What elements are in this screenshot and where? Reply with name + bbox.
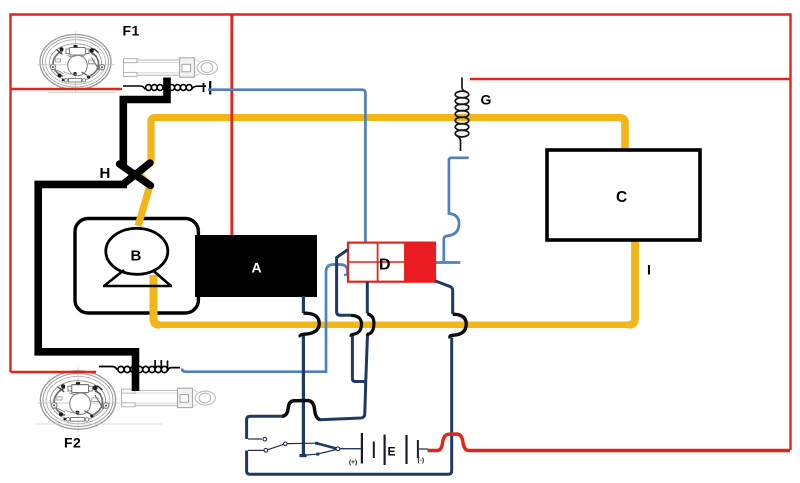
thick brake hose from F1 coil down [123, 78, 167, 167]
flexible hose coil at F2 [99, 360, 180, 373]
switch cluster [248, 439, 337, 455]
battery E cells [362, 433, 418, 465]
wheel brake drum F1 [37, 31, 115, 92]
flexible hose coil at F1 [123, 85, 206, 91]
black jump bump over yellow (valve bottom wire) [367, 314, 374, 336]
wheel brake drum F2 [37, 367, 120, 432]
svg-text:C: C [616, 189, 627, 206]
battery terminal leads [339, 448, 361, 450]
svg-text:(-): (-) [418, 457, 425, 464]
red stub wire to F2 drum [11, 371, 97, 373]
svg-text:E: E [388, 445, 396, 459]
ECU C box [547, 150, 700, 240]
navy battery loop [247, 338, 452, 475]
svg-text:(+): (+) [349, 459, 357, 466]
coil G [455, 78, 469, 152]
baseline under drum F2 [37, 423, 162, 425]
navy wire from valve D right corner to battery loop [436, 281, 453, 314]
thick brake hose from H to F2 cylinder [38, 184, 135, 391]
black jump bump over yellow (battery wire) [450, 314, 466, 338]
baseline under drum F1 [48, 92, 115, 94]
switch blade [318, 444, 337, 449]
red wire from battery negative to right border [428, 434, 791, 451]
black jump bump over yellow (valve left wire) [351, 315, 362, 336]
black hump over pump wire on ground run [282, 401, 320, 420]
pump stand [103, 270, 172, 286]
black jump bump over yellow (pump wire) [300, 313, 319, 337]
svg-text:B: B [131, 248, 142, 265]
connector bars at F1 coil [203, 83, 205, 92]
svg-text:A: A [252, 260, 262, 276]
svg-text:I: I [647, 262, 651, 278]
svg-text:G: G [481, 92, 492, 108]
wheel cylinder actuator F1 [124, 58, 218, 77]
crossover X at H [120, 163, 151, 186]
navy wire from A bottom down to switch [302, 296, 305, 313]
red stub wire to F1 drum [11, 88, 123, 90]
pump housing around B [75, 219, 198, 314]
blue sensor wire from F1 connector to valve D top [208, 90, 365, 242]
accumulator A black box [195, 235, 317, 297]
navy wire from valve D left to pump control [337, 250, 351, 316]
yellow wire bottom run from pump B to C [154, 275, 160, 325]
navy wire from valve D bottom [366, 282, 369, 314]
pump motor B ellipse [106, 228, 168, 274]
svg-text:F2: F2 [64, 435, 81, 451]
svg-text:D: D [379, 257, 391, 274]
svg-text:H: H [100, 165, 111, 182]
svg-text:F1: F1 [123, 23, 140, 39]
red wire from top border down to component A [230, 15, 233, 235]
blue sensor wire from F2 coil to valve D left [182, 265, 348, 372]
red wire from coil G to right border [470, 78, 790, 80]
yellow wire top run from H to C [151, 118, 618, 122]
yellow wire from corner through X down to pump B [138, 119, 151, 226]
valve D body [348, 243, 435, 282]
navy wire continuing below yellow to junction [352, 335, 365, 382]
wheel cylinder actuator F2 [122, 388, 216, 407]
blue sensor wire from coil G to valve D right [444, 158, 469, 261]
